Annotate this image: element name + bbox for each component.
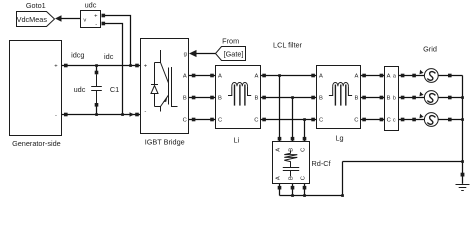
from tag [Gate]	[216, 36, 246, 60]
wire From tag to g	[197, 53, 216, 55]
svg-text:C: C	[301, 148, 307, 152]
svg-text:B: B	[255, 96, 259, 102]
port source B in	[412, 96, 416, 100]
svg-text:B: B	[183, 96, 187, 102]
svg-text:B: B	[387, 96, 391, 102]
wire tap A to Rd-Cf	[279, 76, 281, 142]
voltage measurement udc	[81, 1, 106, 29]
node cap top on DC+	[95, 64, 98, 67]
wire phase C source-bus	[438, 119, 462, 121]
port Li A left	[210, 74, 214, 78]
wire bottom bus	[280, 195, 343, 197]
svg-text:Li: Li	[234, 135, 240, 144]
svg-text:-: -	[95, 22, 97, 28]
wire phase B meas-source	[399, 97, 425, 99]
svg-text:C: C	[319, 118, 323, 124]
arrowhead DC- into IGBT	[130, 112, 135, 117]
port Rd-Cf B bottom	[291, 186, 295, 190]
wire tap B to Rd-Cf	[292, 98, 294, 142]
svg-text:A: A	[355, 74, 359, 80]
block Lg	[317, 66, 361, 143]
AC source phase B	[420, 91, 439, 105]
port Rd-Cf A top	[278, 137, 282, 141]
block IGBT Bridge	[141, 39, 189, 147]
node tap B	[291, 96, 294, 99]
svg-text:-: -	[144, 108, 146, 114]
goto tag Goto1 VdcMeas	[17, 1, 62, 27]
port igbt A	[192, 74, 196, 78]
svg-text:[Gate]: [Gate]	[224, 50, 244, 59]
wire riser	[342, 162, 344, 196]
wire neutral bus right	[462, 76, 464, 184]
wire udc + sense	[105, 16, 131, 66]
svg-text:C: C	[254, 118, 258, 124]
port Lg A right	[362, 74, 366, 78]
node bottom bus B	[291, 194, 294, 197]
port Lg B left	[311, 96, 315, 100]
svg-text:B: B	[289, 176, 295, 180]
svg-text:IGBT Bridge: IGBT Bridge	[145, 137, 185, 146]
port Li A right	[262, 74, 266, 78]
port Li C left	[210, 118, 214, 122]
wire phase B Lg-meas	[361, 97, 385, 99]
svg-text:C: C	[354, 118, 358, 124]
wire capacitor bottom stub	[96, 107, 98, 115]
wire phase A IGBT-Li	[189, 75, 216, 77]
port Rd-Cf B top	[291, 137, 295, 141]
node bus C row	[461, 118, 464, 121]
port gen -	[64, 113, 68, 117]
block Li	[216, 66, 261, 145]
wire phase C Li-Lg	[261, 119, 317, 121]
svg-text:v: v	[83, 18, 86, 24]
arrowhead into g port	[189, 50, 197, 57]
svg-text:C: C	[301, 176, 307, 180]
port meas C left	[380, 118, 384, 122]
svg-text:C: C	[183, 118, 187, 124]
wire DC- rail	[62, 114, 141, 116]
node bottom bus C	[303, 194, 306, 197]
wire phase A meas-source	[399, 75, 425, 77]
port source C out	[448, 118, 452, 122]
svg-text:Generator-side: Generator-side	[12, 139, 61, 148]
svg-text:A: A	[387, 74, 391, 80]
port Rd-Cf C bottom	[303, 186, 307, 190]
node udc- on DC-	[121, 113, 124, 116]
svg-text:Rd-Cf: Rd-Cf	[312, 159, 332, 168]
capacitor C1 (udc)	[91, 71, 102, 107]
port gen +	[64, 64, 68, 68]
wire Rd-Cf stub B	[292, 184, 294, 196]
block Generator-side	[10, 41, 62, 149]
svg-text:A: A	[255, 74, 259, 80]
svg-text:LCL filter: LCL filter	[273, 40, 302, 49]
port Lg C left	[311, 118, 315, 122]
wire phase A source-bus	[438, 75, 462, 77]
svg-text:VdcMeas: VdcMeas	[17, 15, 48, 24]
port Rd-Cf A bottom	[278, 186, 282, 190]
svg-text:B: B	[289, 148, 295, 152]
port igbt B	[192, 96, 196, 100]
inductor icon Lg	[329, 82, 352, 105]
svg-text:a: a	[393, 73, 396, 79]
svg-text:C: C	[387, 118, 391, 124]
wire tap C to Rd-Cf	[304, 120, 306, 142]
svg-text:-: -	[55, 113, 57, 119]
node tap C	[303, 118, 306, 121]
port meas a right	[401, 74, 405, 78]
port igbt -	[135, 113, 139, 117]
port meas b right	[401, 96, 405, 100]
wire neutral horizontal	[343, 161, 463, 163]
ground	[456, 173, 470, 191]
port Lg B right	[362, 96, 366, 100]
svg-text:b: b	[393, 95, 396, 101]
svg-text:Lg: Lg	[335, 133, 343, 142]
svg-text:From: From	[222, 36, 239, 45]
wire phase A Li-Lg	[261, 75, 317, 77]
node udc+ on DC+	[129, 64, 132, 67]
wire udc - sense	[105, 24, 123, 115]
svg-text:A: A	[276, 176, 282, 180]
port Li B right	[262, 96, 266, 100]
wire phase C IGBT-Li	[189, 119, 216, 121]
svg-text:A: A	[183, 74, 187, 80]
wire udc to Goto1	[61, 18, 81, 20]
wire phase B source-bus	[438, 97, 462, 99]
port Rd-Cf C top	[303, 137, 307, 141]
port squares	[64, 64, 452, 190]
port igbt C	[192, 118, 196, 122]
port source B out	[448, 96, 452, 100]
port source C in	[412, 118, 416, 122]
wire phase B IGBT-Li	[189, 97, 216, 99]
node tap A	[278, 74, 281, 77]
svg-text:udc: udc	[85, 1, 97, 10]
block three-phase measurement	[385, 67, 399, 131]
svg-text:idc: idc	[104, 52, 114, 61]
AC source phase C	[420, 113, 439, 127]
wire phase C meas-source	[399, 119, 425, 121]
svg-text:B: B	[355, 96, 359, 102]
AC source phase A	[420, 69, 439, 83]
port igbt +	[135, 64, 139, 68]
port Li C right	[262, 118, 266, 122]
port Lg C right	[362, 118, 366, 122]
wire Rd-Cf stub C	[304, 184, 306, 196]
svg-text:A: A	[218, 74, 222, 80]
port meas c right	[401, 118, 405, 122]
node bus B row	[461, 96, 464, 99]
resistor Rd and capacitor Cf icon	[283, 151, 299, 177]
wire Rd-Cf stub A	[279, 184, 281, 196]
port meas B left	[380, 96, 384, 100]
wire phase A Lg-meas	[361, 75, 385, 77]
port Li B left	[210, 96, 214, 100]
wire phase C Lg-meas	[361, 119, 385, 121]
block Rd-Cf	[273, 142, 332, 184]
svg-text:+: +	[144, 63, 148, 69]
port Lg A left	[311, 74, 315, 78]
svg-text:g: g	[184, 52, 187, 58]
svg-text:C: C	[218, 118, 222, 124]
svg-text:A: A	[276, 148, 282, 152]
port source A in	[412, 74, 416, 78]
port meas A left	[380, 74, 384, 78]
node cap bottom on DC-	[95, 113, 98, 116]
svg-text:B: B	[218, 96, 222, 102]
svg-text:idcg: idcg	[71, 50, 84, 59]
svg-text:Grid: Grid	[423, 44, 437, 53]
port source A out	[448, 74, 452, 78]
wire capacitor top stub	[96, 66, 98, 72]
node bus neutral	[461, 160, 464, 163]
inductor icon Li	[228, 82, 251, 105]
svg-text:udc: udc	[74, 85, 86, 94]
svg-text:Goto1: Goto1	[26, 1, 46, 10]
wire DC+ rail	[62, 65, 141, 67]
node bottom bus corner	[341, 194, 344, 197]
svg-text:A: A	[319, 74, 323, 80]
wire phase B Li-Lg	[261, 97, 317, 99]
svg-text:C1: C1	[110, 85, 119, 94]
svg-text:c: c	[393, 117, 396, 123]
IGBT icon with antiparallel diode	[151, 50, 178, 112]
svg-text:B: B	[319, 96, 323, 102]
